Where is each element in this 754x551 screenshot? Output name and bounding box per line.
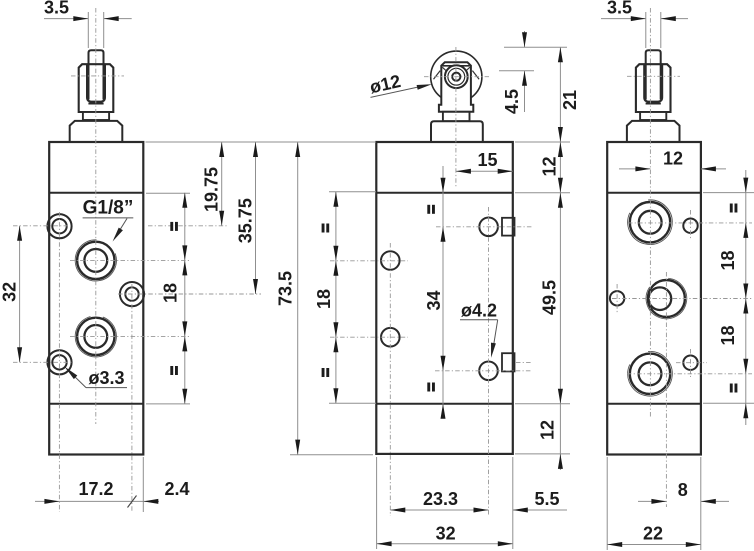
label ø12 leader: [371, 85, 429, 98]
left-view port G1/8 lower thread arc: [75, 317, 116, 357]
dimension right stack line: [559, 47, 561, 470]
dimension mid stack arrow up onto separator2: [441, 404, 446, 419]
centerline left-view roller pin horizontal: [71, 75, 124, 77]
centerline mid-view right holes vertical: [488, 207, 490, 516]
mid-view roller edge tick left: [434, 71, 441, 80]
centerline right-view small hole B horizontal: [676, 362, 707, 364]
right-view small hole C: [610, 291, 624, 305]
dimension = far-right lower label: [730, 384, 733, 393]
dimension 8 line left: [638, 500, 666, 502]
dimension mid stack line: [442, 166, 444, 418]
right-view middle port inner (offset): [649, 287, 672, 310]
centerline left-view hole1 extension right: [148, 225, 228, 227]
extension line right 3.5 pin right: [660, 12, 662, 48]
svg-text:18: 18: [161, 283, 181, 303]
left-view port G1/8 lower outer: [77, 318, 114, 355]
dimension 17.2/2.4 line: [35, 500, 159, 502]
extension line mid separator2 left: [329, 402, 376, 404]
dimension 12b arrow at body bottom: [558, 454, 563, 469]
dimension tick slash at 131.9: [128, 496, 137, 508]
dimension 17.2 arrow: [44, 499, 59, 504]
dimension 35.75 arrow top: [253, 142, 258, 157]
left-view mounting hole bottom inner: [52, 355, 66, 369]
mid-view bracket top inner line: [442, 65, 469, 67]
dimension = far-right upper label: [730, 204, 733, 213]
dimension mid-left stack arrows at hole1: [333, 246, 338, 261]
centerline right-view port1 horizontal: [628, 222, 752, 224]
label ø3.3 underline: [86, 387, 127, 389]
label ø4.2 leader arrow: [491, 343, 496, 358]
mid-view screw hole lower-left: [381, 328, 400, 347]
mid-view cap collar: [431, 121, 483, 142]
label ø12 leader arrow: [417, 84, 432, 90]
svg-text:12: 12: [540, 156, 560, 176]
dimension 32 left arrow bottom: [17, 347, 22, 362]
mid-view roller axle: [452, 73, 460, 81]
svg-text:23.3: 23.3: [423, 489, 458, 509]
svg-text:35.75: 35.75: [236, 198, 256, 243]
dimension far-right = arrow up onto separator2: [743, 403, 748, 418]
dimension = mid lower label: [322, 368, 325, 377]
extension line right body right edge bottom: [700, 457, 702, 550]
label ø4.2 leader: [493, 320, 498, 352]
svg-text:5.5: 5.5: [534, 489, 559, 509]
right-view fork outer body: [636, 64, 671, 112]
mid-view bracket corner tick left: [442, 67, 447, 72]
svg-text:12: 12: [538, 420, 558, 440]
centerline right-view roller horizontal: [627, 75, 680, 77]
dimension far-right = arrow down onto separator1: [743, 178, 748, 193]
dimension 23.3 arrow left: [390, 508, 405, 513]
extension line mid body right edge bottom: [512, 457, 514, 549]
dimension 3.5 left-view line right part: [104, 18, 132, 20]
centerline right-view small hole C vertical: [616, 284, 618, 313]
centerline mid-view tab2 horizontal: [516, 361, 531, 363]
dimension 12 right-view arrow left: [635, 166, 650, 171]
svg-text:21: 21: [560, 90, 580, 110]
dimension mid-left stack line: [335, 192, 337, 403]
right-view small hole A: [683, 219, 697, 233]
dimension 8 line right: [701, 500, 729, 502]
centerline left-view port1 horizontal: [70, 259, 191, 261]
left-view fork outer body: [79, 64, 114, 112]
right-view cap collar: [627, 121, 680, 142]
dimension 49.5 arrow at separator2: [558, 389, 563, 404]
centerline left-view hole1 horizontal: [13, 225, 71, 227]
right-view middle port thread arc: [646, 278, 687, 319]
dimension 3.5 left-view arrow left: [73, 16, 88, 21]
svg-text:3.5: 3.5: [44, 0, 69, 18]
dimension 19.75 arrow top: [219, 142, 224, 157]
dimension 4.5 line upper: [524, 31, 526, 47]
extension line right body left edge bottom: [606, 457, 608, 550]
dimension far-right stack line: [745, 170, 747, 425]
dimension 15 line: [456, 170, 513, 172]
dimension mid stack arrow down to right hole2: [441, 356, 446, 371]
dimension 22 arrow left: [607, 542, 622, 547]
left-view neck: [83, 112, 109, 120]
dimension mid stack arrow down onto separator1: [441, 178, 446, 193]
label G1/8 underline: [83, 217, 134, 219]
right-view separator line 1: [607, 192, 701, 194]
extension line right separator1 far right: [703, 192, 754, 194]
dimension mid-left stack arrow at separator2: [333, 388, 338, 403]
dimension 21/12 arrows at body top: [558, 127, 563, 142]
dimension 19.75 arrow bottom: [219, 211, 224, 226]
extension line right 3.5 pin left: [645, 12, 647, 48]
label ø3.3 leader: [67, 369, 87, 388]
centerline right-view small hole A vertical: [690, 210, 692, 239]
extension line left body right edge bottom: [142, 457, 144, 512]
left-view port G1/8 lower inner: [84, 325, 107, 348]
svg-text:ø3.3: ø3.3: [88, 368, 124, 388]
centerline right-view middle port horizontal: [612, 298, 752, 300]
centerline mid-view left hole2 horizontal: [330, 336, 408, 338]
dimension far-right arrows at middle port line: [743, 284, 748, 299]
centerline right-view port3 horizontal: [627, 373, 752, 375]
extension line left separator1 stack: [146, 192, 190, 194]
dimension 32 bottom arrow right: [498, 541, 513, 546]
dimension 3.5 right-view line right part: [661, 18, 688, 20]
dimension 5.5 arrow: [513, 508, 528, 513]
dimension 19.75 line: [221, 142, 223, 226]
extension line left 3.5 pin right: [103, 12, 105, 48]
right-view small hole B: [683, 356, 697, 370]
centerline left-view vertical axis: [95, 8, 97, 424]
mid-view body outline: [376, 142, 513, 454]
left-view roller pin (edge view): [89, 50, 104, 99]
extension line roller hub (4.5): [499, 70, 534, 72]
dimension left stack line: [184, 193, 186, 404]
dimension left stack arrow down at separator2: [182, 389, 187, 404]
dimension 22 line: [607, 544, 701, 546]
dimension = upper left label: [170, 222, 173, 231]
svg-text:4.5: 4.5: [502, 89, 522, 114]
extension line mid-body top right: [515, 141, 570, 143]
centerline left-view side-hole vertical: [131, 284, 133, 512]
svg-text:17.2: 17.2: [78, 479, 113, 499]
dimension 32 bottom line: [377, 543, 513, 545]
left-view mounting hole top inner: [52, 219, 66, 233]
dimension 3.5 right-view arrow right: [661, 16, 676, 21]
right-view roller pin (edge view): [646, 50, 661, 99]
svg-text:8: 8: [678, 480, 688, 500]
dimension = lower left label: [170, 366, 173, 375]
dimension left stack arrow up at separator1: [182, 193, 187, 208]
dimension 32 left line: [19, 226, 21, 362]
left-view body outline: [49, 142, 143, 455]
mid-view plunger neck: [443, 112, 470, 121]
mid-view screw hole lower-right (ø4.2): [479, 362, 498, 381]
dimension 23.3 line: [390, 509, 488, 511]
svg-text:19.75: 19.75: [202, 167, 222, 212]
dimension 3.5 left-view line left part: [44, 18, 88, 20]
left-view fork slot: [87, 64, 105, 101]
dimension = mid-col upper label: [427, 205, 430, 214]
right-view port3 thread arc: [628, 351, 673, 396]
dimension left stack arrows at port1 centerline: [182, 245, 187, 260]
extension line mid separator1 left: [329, 191, 376, 193]
dimension = mid-col lower label: [427, 383, 430, 392]
mid-view bracket corner tick right: [465, 67, 470, 72]
dimension 4.5 arrow down: [522, 32, 527, 47]
centerline mid-view roller horizontal: [424, 76, 489, 78]
label G1/8 leader: [115, 219, 128, 239]
dimension 21 arrow top: [558, 47, 563, 62]
centerline left-view side-hole horizontal: [118, 293, 261, 295]
left-view separator line 1: [49, 192, 143, 194]
dimension 73.5 line: [297, 142, 299, 455]
dimension 3.5 left-view arrow right: [104, 16, 119, 21]
svg-text:73.5: 73.5: [276, 271, 296, 306]
svg-text:49.5: 49.5: [540, 280, 560, 315]
extension line left separator2 stack: [146, 403, 190, 405]
extension line mid body left edge bottom: [376, 457, 378, 549]
mid-view separator line 2: [376, 403, 513, 405]
centerline left-view port2 horizontal: [70, 335, 191, 337]
dimension 23.3 arrow right: [474, 508, 489, 513]
centerline left-view mounting holes vertical: [58, 212, 60, 512]
right-view fork slot bottom bar: [646, 103, 661, 105]
left-view separator line 2: [49, 403, 143, 405]
dimension 12 right-view arrow right: [701, 166, 716, 171]
mid-view roller hub outer: [445, 65, 468, 88]
right-view fork slot: [644, 64, 662, 101]
svg-text:18: 18: [314, 289, 334, 309]
svg-text:15: 15: [477, 150, 497, 170]
dimension 15 arrow left: [456, 169, 471, 174]
extension line left 3.5 pin left: [87, 12, 89, 48]
svg-text:G1/8”: G1/8”: [83, 197, 134, 218]
svg-text:ø4.2: ø4.2: [461, 300, 497, 320]
dimension 2.4 arrow: [143, 499, 158, 504]
centerline right-view small hole B vertical: [690, 349, 692, 377]
extension line roller top (21 / 4.5): [504, 46, 567, 48]
dimension 35.75 line: [255, 142, 257, 294]
right-view port1 inner: [639, 211, 662, 234]
dimension 12 right-view line left: [619, 168, 650, 170]
svg-text:22: 22: [643, 524, 663, 544]
label ø3.3 leader arrow: [65, 367, 78, 379]
right-view neck: [640, 112, 666, 120]
dimension far-right arrow up to port1 line: [743, 223, 748, 238]
dimension 8 arrow right: [701, 499, 716, 504]
svg-text:3.5: 3.5: [607, 0, 632, 18]
dimension 73.5 arrow bottom: [295, 440, 300, 455]
svg-text:12: 12: [663, 149, 683, 169]
mid-view lever bracket: [439, 62, 473, 112]
left-view port G1/8 upper thread arc: [75, 240, 116, 281]
left-view fork slot bottom bar: [88, 103, 103, 105]
dimension 5.5 line: [513, 509, 567, 511]
right-view port1 thread arc: [628, 200, 673, 245]
svg-text:18: 18: [718, 250, 738, 270]
dimension 12 right-view line right: [701, 168, 726, 170]
dimension 8 arrow left: [651, 499, 666, 504]
mid-view roller edge tick right: [472, 71, 479, 80]
centerline mid-view right hole2 horizontal: [435, 370, 532, 372]
mid-view roller circle (ø12): [431, 51, 482, 102]
mid-view tab upper-right: [502, 218, 515, 236]
centerline right-view middle port vertical: [665, 272, 667, 507]
svg-text:2.4: 2.4: [164, 479, 189, 499]
mid-view roller hub middle: [448, 68, 465, 85]
dimension far-right arrow down to port3 line: [743, 359, 748, 374]
dimension 73.5 arrow top: [295, 142, 300, 157]
left-view side hole outer: [120, 282, 144, 306]
mid-view separator line 1: [376, 192, 513, 194]
right-view middle port outer: [648, 280, 685, 317]
dimension 4.5 line lower: [524, 71, 526, 112]
dimension mid-left stack arrow at separator1: [333, 192, 338, 207]
extension line right separator2 far right: [703, 402, 754, 404]
left-view cap collar: [70, 121, 123, 142]
dimension 32 left arrow top: [17, 226, 22, 241]
dimension mid-left stack arrows at hole2: [333, 322, 338, 337]
dimension 32 bottom arrow left: [377, 541, 392, 546]
extension line mid separator1 right: [515, 192, 570, 194]
mid-view screw hole upper-right: [479, 218, 498, 237]
right-view port1 outer: [630, 202, 670, 242]
dimension 15 arrow right: [498, 169, 513, 174]
dimension mid stack arrow up to right hole1: [441, 227, 446, 242]
left-view side hole inner: [125, 287, 138, 300]
centerline right-view vertical axis: [649, 8, 651, 418]
dimension 3.5 right-view arrow left: [631, 16, 646, 21]
centerline mid-view left hole1 horizontal: [330, 260, 408, 262]
svg-text:32: 32: [436, 524, 456, 544]
right-view port3 inner: [639, 362, 662, 385]
dimension 35.75 arrow bottom: [253, 279, 258, 294]
centerline mid-view right hole1 horizontal: [436, 226, 532, 228]
dimension 12/49.5 arrows at separator1: [558, 178, 563, 193]
dimension 3.5 right-view line left part: [601, 18, 646, 20]
extension line body top across views: [146, 141, 377, 143]
mid-view screw hole upper-left: [381, 251, 400, 270]
right-view body outline: [607, 142, 701, 455]
extension line mid body bottom left (73.5): [290, 454, 373, 456]
svg-text:34: 34: [424, 290, 444, 310]
label G1/8 leader arrow: [113, 228, 123, 242]
dimension 4.5 arrow up: [522, 71, 527, 86]
centerline left-view hole2 horizontal: [13, 361, 73, 363]
right-view separator line 2: [607, 403, 701, 405]
left-view port G1/8 upper inner: [84, 249, 107, 272]
left-view port G1/8 upper outer: [77, 242, 114, 279]
dimension 22 arrow right: [686, 542, 701, 547]
left-view mounting hole bottom (ø3.3) outer: [47, 350, 71, 374]
extension line mid body bottom right: [515, 453, 570, 455]
svg-text:32: 32: [0, 282, 20, 302]
mid-view tab lower-right: [502, 353, 515, 371]
centerline mid-view plunger vertical: [455, 47, 457, 188]
dimension = mid upper label: [322, 224, 325, 233]
left-view mounting hole top (ø3.3) outer: [47, 214, 71, 238]
dimension left stack arrows at port2 centerline: [182, 321, 187, 336]
label ø4.2 underline: [460, 319, 498, 321]
extension line mid separator2 right: [515, 403, 570, 405]
svg-text:18: 18: [718, 325, 738, 345]
right-view port3 outer: [630, 354, 670, 394]
centerline mid-view left holes vertical: [389, 243, 391, 516]
